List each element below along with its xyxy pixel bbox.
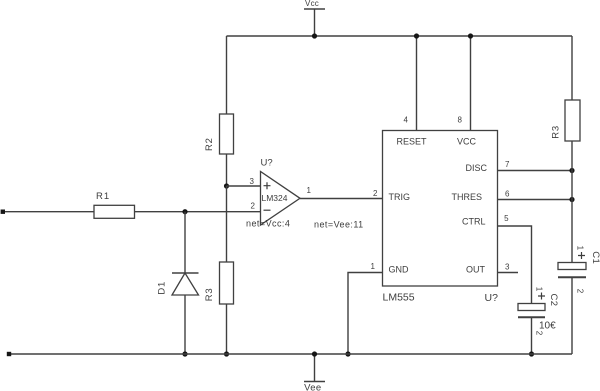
wire pin 3 OUT stub bbox=[498, 272, 519, 274]
net label net=Vee:11 bbox=[314, 220, 364, 230]
junction R3 bottom rail bbox=[224, 351, 229, 356]
svg-text:2: 2 bbox=[535, 331, 544, 336]
pin number 8 bbox=[458, 115, 463, 124]
wire R3 left bottom bbox=[226, 304, 228, 354]
wire pin 5 CTRL to C2 bbox=[498, 226, 532, 304]
svg-text:4: 4 bbox=[404, 115, 409, 124]
svg-text:1: 1 bbox=[307, 186, 312, 195]
svg-text:2: 2 bbox=[373, 189, 378, 198]
capacitor C2 bbox=[518, 287, 559, 336]
wire input to R1 bbox=[5, 211, 94, 213]
pin number 2 TRIG bbox=[373, 189, 378, 198]
power Vee bbox=[304, 354, 325, 391]
resistor R2 bbox=[204, 114, 234, 154]
pin number 3 opamp bbox=[250, 177, 255, 186]
pin number 4 bbox=[404, 115, 409, 124]
wire top rail Vcc net bbox=[227, 35, 573, 37]
pin number 3 bbox=[505, 263, 510, 272]
wire pin 1 GND to bottom rail bbox=[348, 273, 383, 355]
svg-text:LM324: LM324 bbox=[262, 193, 288, 203]
svg-text:5: 5 bbox=[504, 214, 509, 223]
wire pin 7 DISC bbox=[498, 170, 573, 172]
wire pin 6 THRES bbox=[498, 199, 573, 201]
svg-text:C1: C1 bbox=[590, 251, 600, 264]
junction THRES right column bbox=[569, 197, 574, 202]
diode D1 bbox=[157, 273, 199, 295]
svg-text:U?: U? bbox=[261, 158, 273, 169]
svg-text:D1: D1 bbox=[157, 281, 168, 295]
svg-text:8: 8 bbox=[458, 115, 463, 124]
junction Vee bottom rail bbox=[312, 351, 317, 356]
svg-text:RESET: RESET bbox=[397, 137, 428, 147]
wire D1 top bbox=[184, 212, 186, 273]
wire pin 8 VCC to Vcc rail bbox=[470, 36, 472, 131]
wire R1 to opamp pin2 bbox=[135, 211, 261, 213]
svg-text:7: 7 bbox=[505, 160, 510, 169]
svg-text:CTRL: CTRL bbox=[462, 217, 486, 227]
svg-text:1: 1 bbox=[535, 287, 544, 292]
svg-text:3: 3 bbox=[505, 263, 510, 272]
svg-text:1: 1 bbox=[576, 246, 585, 251]
wire R2 top bbox=[226, 36, 228, 114]
svg-text:VCC: VCC bbox=[457, 137, 477, 147]
svg-text:C2: C2 bbox=[548, 294, 559, 307]
wire C2 bottom bbox=[531, 317, 533, 354]
svg-text:Vee: Vee bbox=[304, 383, 321, 391]
junction GND bottom rail bbox=[345, 351, 350, 356]
svg-text:3: 3 bbox=[250, 177, 255, 186]
wire R2 bottom to node bbox=[226, 154, 228, 186]
junction Vcc on top rail bbox=[312, 33, 317, 38]
wire Vcc rail to R3 right bbox=[571, 36, 573, 100]
resistor R3 left bbox=[204, 262, 234, 304]
junction D1 top bbox=[182, 209, 187, 214]
label U? LM555 bbox=[485, 292, 499, 304]
op-amp U1 LM324 bbox=[261, 158, 301, 226]
IC U2 LM555 body bbox=[383, 131, 498, 287]
svg-text:Vcc: Vcc bbox=[305, 0, 319, 8]
svg-text:THRES: THRES bbox=[451, 192, 482, 202]
pin number 7 bbox=[505, 160, 510, 169]
svg-text:net=Vcc:4: net=Vcc:4 bbox=[246, 219, 290, 229]
svg-text:OUT: OUT bbox=[466, 265, 486, 275]
junction pin4 rail bbox=[414, 33, 419, 38]
svg-text:6: 6 bbox=[505, 189, 510, 198]
resistor R3 right bbox=[551, 100, 581, 141]
svg-text:R3: R3 bbox=[204, 288, 215, 302]
svg-text:R1: R1 bbox=[96, 191, 110, 202]
junction DISC right column bbox=[569, 168, 574, 173]
svg-text:U?: U? bbox=[485, 292, 499, 304]
wire C1 bottom bbox=[571, 277, 573, 354]
pin number 1 opamp output bbox=[307, 186, 312, 195]
resistor R1 bbox=[94, 191, 135, 218]
svg-text:R2: R2 bbox=[204, 137, 215, 151]
svg-text:TRIG: TRIG bbox=[389, 192, 411, 202]
svg-text:GND: GND bbox=[389, 265, 410, 275]
svg-text:2: 2 bbox=[576, 289, 585, 294]
pin number 6 bbox=[505, 189, 510, 198]
junction D1 bottom rail bbox=[182, 351, 187, 356]
capacitor C1 bbox=[558, 246, 600, 294]
svg-text:2: 2 bbox=[251, 202, 256, 211]
svg-text:1: 1 bbox=[371, 262, 376, 271]
pin number 1 GND bbox=[371, 262, 376, 271]
svg-text:DISC: DISC bbox=[465, 163, 487, 173]
pin number 5 bbox=[504, 214, 509, 223]
svg-text:LM555: LM555 bbox=[383, 292, 415, 304]
pin number 2 opamp bbox=[251, 202, 256, 211]
junction node opamp pin3 bbox=[224, 183, 229, 188]
wire opamp output to TRIG bbox=[300, 198, 383, 200]
wire D1 bottom bbox=[184, 295, 186, 354]
junction pin8 rail bbox=[468, 33, 473, 38]
node bottom rail end square bbox=[7, 352, 11, 356]
svg-text:R3: R3 bbox=[551, 125, 562, 139]
node input pin square bbox=[1, 210, 5, 214]
wire node to opamp pin3 bbox=[227, 185, 261, 187]
wire node down to R3 bbox=[226, 186, 228, 262]
svg-text:net=Vee:11: net=Vee:11 bbox=[314, 220, 364, 230]
power Vcc bbox=[304, 0, 325, 36]
wire pin 4 RESET to Vcc rail bbox=[416, 36, 418, 131]
label LM555 bbox=[383, 292, 415, 304]
net label net=Vcc:4 bbox=[246, 219, 290, 229]
wire bottom rail Vee net bbox=[11, 353, 572, 355]
junction C2 bottom rail bbox=[529, 351, 534, 356]
wire R3 right bottom to C1 bbox=[571, 141, 573, 263]
